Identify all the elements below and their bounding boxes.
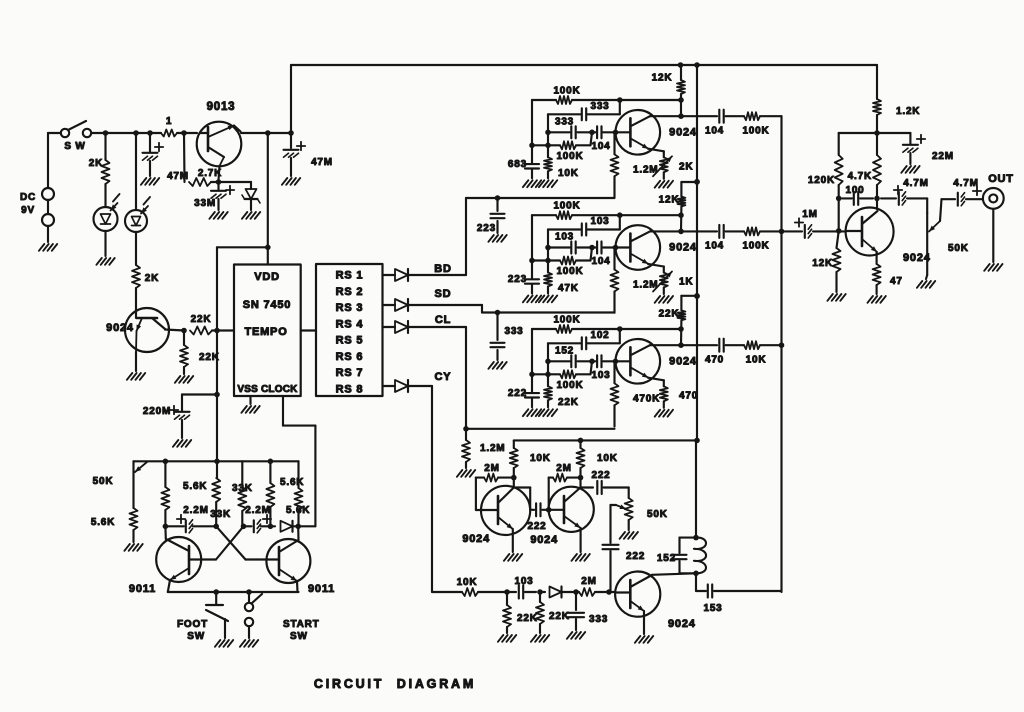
svg-text:5.6K: 5.6K: [183, 481, 207, 492]
svg-text:9024: 9024: [669, 242, 697, 254]
svg-text:2.7K: 2.7K: [198, 168, 222, 179]
svg-text:VSS CLOCK: VSS CLOCK: [237, 384, 298, 395]
svg-text:RS 8: RS 8: [336, 383, 364, 395]
svg-text:DC: DC: [20, 192, 36, 203]
svg-text:333: 333: [590, 101, 609, 112]
svg-text:100K: 100K: [556, 380, 583, 391]
svg-text:9011: 9011: [129, 583, 156, 595]
svg-text:12K: 12K: [652, 72, 673, 83]
svg-text:100K: 100K: [742, 125, 769, 136]
svg-text:33K: 33K: [210, 509, 231, 520]
svg-text:RS 6: RS 6: [336, 351, 364, 363]
svg-text:12K: 12K: [659, 195, 680, 206]
svg-text:22K: 22K: [558, 397, 579, 408]
svg-text:33M: 33M: [194, 198, 216, 209]
svg-text:4.7M: 4.7M: [903, 178, 928, 189]
svg-text:TEMPO: TEMPO: [244, 326, 287, 338]
svg-text:22M: 22M: [932, 151, 954, 162]
svg-text:1: 1: [166, 116, 172, 127]
svg-text:4.7M: 4.7M: [953, 178, 978, 189]
svg-text:103: 103: [590, 216, 609, 227]
svg-text:222: 222: [626, 551, 645, 562]
svg-text:104: 104: [705, 125, 724, 136]
svg-text:47: 47: [890, 276, 903, 287]
svg-text:102: 102: [590, 330, 609, 341]
svg-text:223: 223: [508, 274, 527, 285]
svg-text:9024: 9024: [106, 322, 134, 334]
svg-text:12K: 12K: [812, 258, 833, 269]
svg-text:VDD: VDD: [254, 271, 280, 283]
svg-text:100K: 100K: [742, 241, 769, 252]
svg-text:100K: 100K: [553, 85, 580, 96]
svg-text:1K: 1K: [679, 277, 693, 288]
svg-text:9024: 9024: [669, 126, 697, 138]
svg-text:9V: 9V: [21, 205, 35, 216]
svg-text:100K: 100K: [553, 201, 580, 212]
svg-text:9011: 9011: [308, 583, 335, 595]
svg-text:RS 4: RS 4: [336, 318, 364, 330]
svg-text:103: 103: [591, 370, 610, 381]
svg-text:10K: 10K: [746, 354, 767, 365]
svg-text:2M: 2M: [581, 576, 597, 587]
svg-text:BD: BD: [434, 263, 452, 275]
svg-text:10K: 10K: [457, 577, 478, 588]
svg-text:5.6K: 5.6K: [280, 477, 304, 488]
svg-text:22K: 22K: [549, 611, 570, 622]
svg-text:220M: 220M: [143, 406, 171, 417]
svg-text:683: 683: [508, 159, 527, 170]
svg-text:9013: 9013: [207, 101, 236, 113]
svg-text:50K: 50K: [93, 476, 114, 487]
svg-text:2K: 2K: [679, 161, 693, 172]
svg-text:100K: 100K: [553, 314, 580, 325]
svg-text:5.6K: 5.6K: [91, 517, 115, 528]
svg-text:470: 470: [705, 354, 724, 365]
svg-text:103: 103: [514, 576, 533, 587]
svg-text:9024: 9024: [462, 533, 490, 545]
svg-text:152: 152: [657, 553, 676, 564]
svg-text:100: 100: [845, 185, 864, 196]
svg-text:4.7K: 4.7K: [848, 171, 872, 182]
svg-text:RS 5: RS 5: [336, 335, 364, 347]
svg-text:153: 153: [703, 603, 722, 614]
svg-text:1.2M: 1.2M: [480, 443, 505, 454]
svg-text:2K: 2K: [145, 273, 159, 284]
svg-text:470K: 470K: [633, 393, 660, 404]
svg-text:104: 104: [705, 241, 724, 252]
svg-text:1M: 1M: [802, 209, 818, 220]
svg-text:50K: 50K: [647, 509, 668, 520]
svg-text:CIRCUIT DIAGRAM: CIRCUIT DIAGRAM: [314, 677, 476, 691]
svg-text:SN 7450: SN 7450: [243, 299, 291, 311]
svg-text:104: 104: [591, 141, 610, 152]
svg-text:222: 222: [527, 521, 546, 532]
svg-text:2K: 2K: [89, 158, 103, 169]
svg-text:RS 7: RS 7: [336, 367, 364, 379]
svg-text:10K: 10K: [530, 453, 551, 464]
svg-text:22K: 22K: [199, 352, 220, 363]
svg-text:104: 104: [591, 256, 610, 267]
svg-text:47M: 47M: [167, 171, 189, 182]
svg-text:470: 470: [679, 390, 698, 401]
svg-text:22K: 22K: [517, 613, 538, 624]
svg-text:SD: SD: [435, 288, 452, 300]
svg-text:CY: CY: [435, 371, 452, 383]
svg-text:10K: 10K: [597, 453, 618, 464]
svg-text:9024: 9024: [669, 355, 697, 367]
svg-text:10K: 10K: [558, 168, 579, 179]
svg-text:47M: 47M: [311, 157, 333, 168]
svg-text:222: 222: [591, 470, 610, 481]
svg-text:START: START: [283, 619, 320, 630]
svg-text:OUT: OUT: [988, 173, 1014, 185]
svg-text:333: 333: [589, 614, 608, 625]
svg-text:RS 3: RS 3: [336, 302, 364, 314]
svg-text:120K: 120K: [808, 175, 835, 186]
svg-text:S W: S W: [64, 141, 85, 152]
svg-text:FOOT: FOOT: [177, 619, 208, 630]
svg-text:RS 1: RS 1: [336, 270, 364, 282]
svg-text:22K: 22K: [191, 314, 212, 325]
svg-text:RS 2: RS 2: [336, 286, 364, 298]
svg-text:223: 223: [477, 223, 496, 234]
svg-text:1.2K: 1.2K: [896, 106, 920, 117]
svg-text:2M: 2M: [556, 463, 572, 474]
svg-text:CL: CL: [435, 314, 451, 326]
svg-text:9024: 9024: [903, 252, 931, 264]
svg-text:SW: SW: [290, 631, 308, 642]
svg-text:222: 222: [508, 388, 527, 399]
svg-text:47K: 47K: [558, 283, 579, 294]
svg-text:9024: 9024: [530, 534, 558, 546]
svg-text:2.2M: 2.2M: [183, 505, 208, 516]
svg-text:333: 333: [504, 326, 523, 337]
svg-text:152: 152: [555, 345, 574, 356]
svg-text:22K: 22K: [659, 308, 680, 319]
svg-text:333: 333: [555, 116, 574, 127]
svg-text:2M: 2M: [484, 463, 500, 474]
svg-text:5.6K: 5.6K: [286, 505, 310, 516]
svg-text:103: 103: [555, 232, 574, 243]
svg-text:50K: 50K: [948, 243, 969, 254]
svg-text:100K: 100K: [556, 151, 583, 162]
svg-text:SW: SW: [187, 631, 205, 642]
svg-text:9024: 9024: [668, 618, 696, 630]
svg-text:100K: 100K: [556, 266, 583, 277]
